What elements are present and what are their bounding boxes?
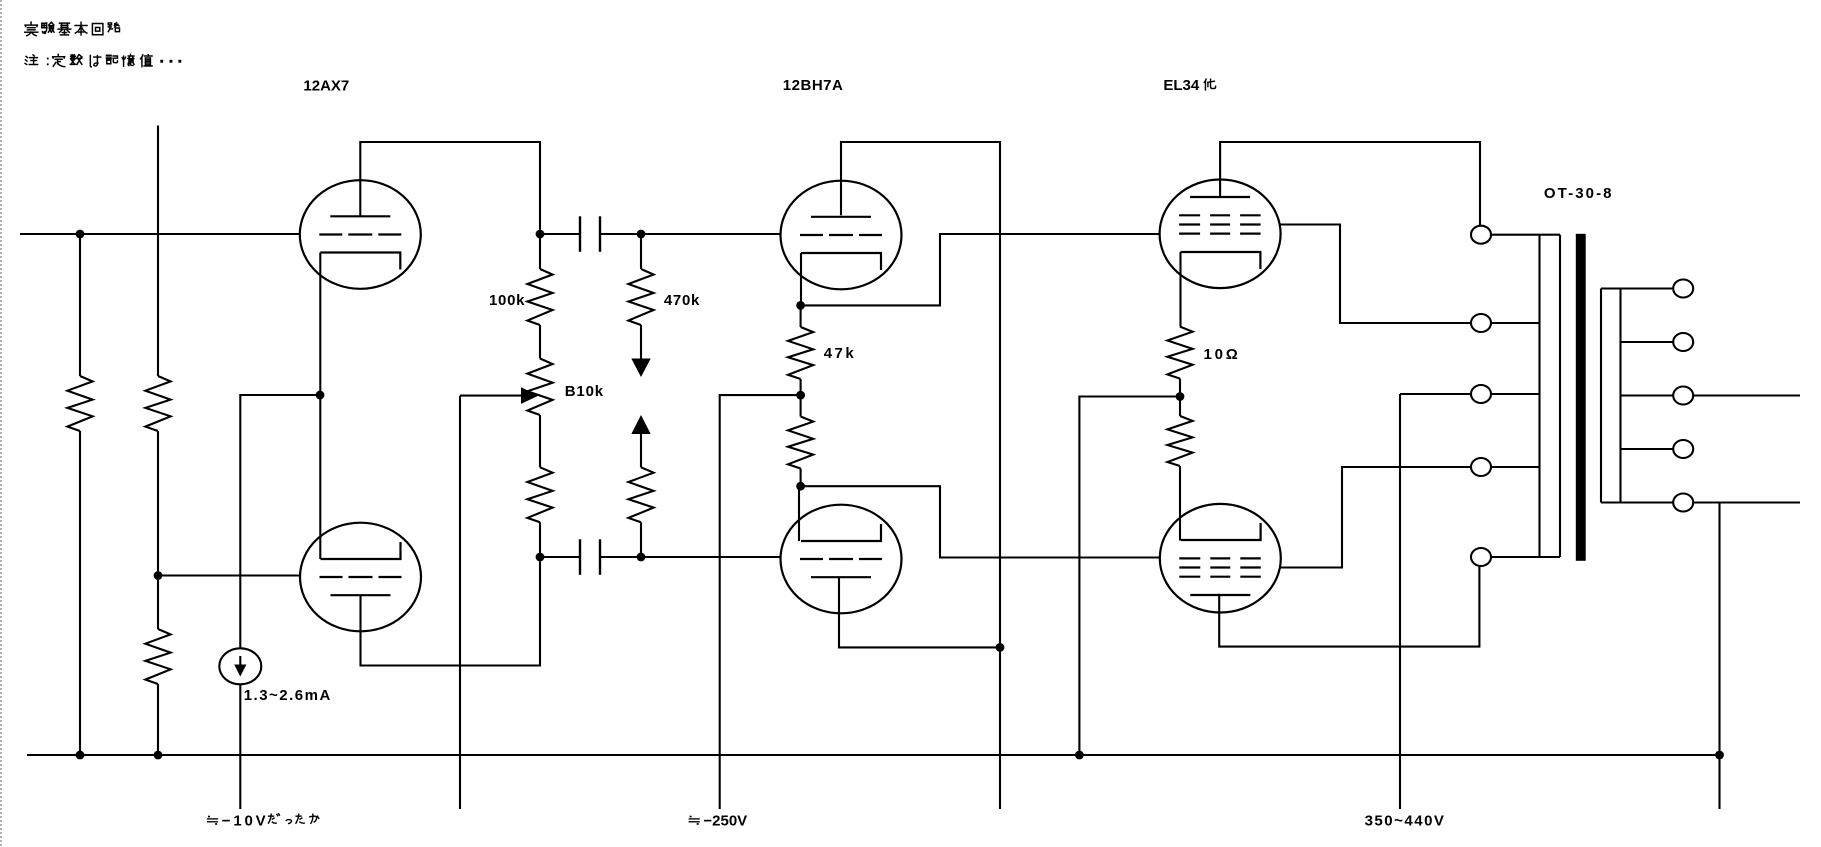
wire P1 to winding [1491, 234, 1561, 236]
wire R2 to node [157, 431, 159, 576]
node U2b plate junction [996, 643, 1005, 652]
wire cathode return to rail [1079, 397, 1180, 756]
svg-text:100k: 100k [489, 292, 525, 309]
wire S5 lead [1601, 501, 1674, 503]
wire R4 bottom lead [539, 522, 541, 557]
resistor R3 (divider lower) [145, 629, 170, 684]
wire S2 lead [1621, 341, 1674, 343]
wire R3 bottom lead [157, 684, 159, 755]
terminal OT P4 [1471, 458, 1491, 476]
wire S4 lead [1621, 448, 1674, 450]
node input junction [76, 230, 85, 239]
node U2b cathode [796, 482, 805, 491]
wire 47k lower lead [800, 469, 802, 487]
pentode U3a EL34 upper [1160, 180, 1281, 289]
resistor 470k grid leak [628, 269, 653, 325]
wire current source branch [240, 395, 320, 648]
label EL34 hoka (kanji) [1204, 79, 1215, 90]
terminal OT P1 [1471, 226, 1491, 244]
node rail secondary common [1715, 751, 1724, 760]
terminal OT P2 [1471, 314, 1491, 332]
svg-text:10Ω: 10Ω [1204, 346, 1241, 363]
triode U1b 12AX7 lower [300, 523, 421, 632]
wire speaker - output [1693, 501, 1800, 503]
node rail R1 [76, 751, 85, 760]
svg-text:12BH7A: 12BH7A [783, 77, 844, 94]
wire R5 bottom lead [640, 522, 642, 557]
arrow down (470k to wiper) [631, 325, 650, 377]
node lower coupling left [536, 553, 545, 562]
svg-text:12AX7: 12AX7 [303, 78, 349, 95]
node cathode / current source [316, 391, 325, 400]
wire U1a plate to coupling node [360, 142, 540, 230]
wire B+ 350-440V [1399, 394, 1401, 809]
wire C2 right lead [601, 556, 641, 558]
transformer primary winding [1540, 235, 1561, 557]
wire U3b plate to OT P5 [1219, 567, 1479, 647]
wire to U2a grid [641, 233, 781, 235]
wire current source lower probe [239, 684, 241, 809]
wire C2 left lead [540, 556, 579, 558]
potentiometer B10k wiper arrow [460, 387, 539, 404]
svg-text:−250V: −250V [703, 813, 747, 830]
resistor 47k lower [788, 417, 813, 469]
wire U2a cathode to U3a grid [801, 234, 1160, 305]
wire S5 to ground rail [1718, 503, 1720, 810]
triode U1a 12AX7 upper [300, 180, 421, 289]
wire 10ohm mid link [1179, 379, 1181, 416]
resistor 47k upper [788, 327, 813, 379]
wire P3 to winding [1491, 393, 1540, 395]
resistor R4 (lower of 100k chain) [527, 467, 552, 522]
wire C1 right lead [601, 233, 641, 235]
label datta-ka (kana) [268, 814, 279, 823]
wire U2b plate to bus [839, 577, 1000, 648]
title jikken kihon kairo [25, 22, 38, 36]
potentiometer B10k [527, 359, 552, 416]
wire 100k to B10k [539, 325, 541, 359]
svg-text:B10k: B10k [565, 383, 604, 400]
terminal OT S1 [1673, 280, 1693, 298]
current source I1 [219, 648, 261, 684]
resistor R2 (divider upper) [145, 376, 170, 431]
wire 47k top lead [800, 305, 802, 327]
resistor 100k plate load [527, 269, 552, 325]
wire U2a plate bus [841, 142, 1000, 809]
wire B10k to R4 [539, 415, 541, 467]
svg-text:470k: 470k [664, 292, 700, 309]
wire C1 left lead [540, 233, 579, 235]
wire P2 to winding [1491, 322, 1540, 324]
wire R1 top lead [79, 234, 81, 376]
wire 47k mid link [800, 379, 802, 417]
wire speaker + output [1693, 394, 1800, 396]
wire U1b plate to lower coupling node [361, 561, 541, 665]
terminal OT S5 [1673, 494, 1693, 512]
wire U3b screen to OT P4 [1280, 467, 1471, 568]
svg-text:350~440V: 350~440V [1365, 813, 1446, 830]
wire input line to U1a grid [20, 233, 300, 235]
terminal OT S2 [1673, 333, 1693, 351]
wire 470k top lead [640, 234, 642, 269]
pentode U3b EL34 lower [1160, 504, 1281, 613]
wire U1a-U1b cathode link [319, 253, 321, 560]
wire ground rail [27, 754, 1720, 756]
triode U2b 12BH7A lower [781, 505, 902, 614]
terminal OT S3 [1673, 387, 1693, 405]
node U1a plate / C1 [536, 230, 545, 239]
wire bias feed -250V [720, 395, 801, 809]
wire second input line vertical [157, 126, 159, 377]
node EL34 cathode mid [1176, 392, 1185, 401]
wire U2b cathode lead [798, 486, 800, 541]
label approx-equal 2 [689, 816, 699, 825]
svg-text:47k: 47k [824, 345, 857, 362]
svg-text:−10V: −10V [222, 813, 269, 830]
wire P3 feed [1400, 393, 1472, 395]
svg-text:1.3~2.6mA: 1.3~2.6mA [244, 687, 332, 704]
node lower grid divider [154, 571, 163, 580]
node 47k midpoint [796, 391, 805, 400]
wire 100k top lead [539, 234, 541, 269]
terminal OT S4 [1673, 440, 1693, 458]
triode U2a 12BH7A upper [781, 181, 902, 290]
terminal OT P5 [1471, 548, 1491, 566]
node rail R3 [154, 751, 163, 760]
page left edge marks [0, 0, 2, 847]
wire S1 lead [1601, 287, 1674, 289]
wire U2a cathode lead [800, 253, 802, 305]
wire P4 to winding [1491, 466, 1540, 468]
label approx-equal 1 [208, 816, 218, 825]
wire to U2b grid [641, 556, 781, 558]
node rail EL34 cathode return [1075, 751, 1084, 760]
note chu teisu wa kiokuchi [25, 55, 38, 65]
wire R3 top lead [157, 576, 159, 630]
wire U3a plate to OT primary P1 [1220, 142, 1480, 225]
wire B10k wiper down probe [459, 396, 461, 809]
node C2 / chain [637, 553, 646, 562]
wire P5 to winding [1491, 556, 1561, 558]
wire to U3b cathode [1179, 466, 1181, 541]
node U2a cathode [796, 301, 805, 310]
wire U2b cathode to U3b grid [801, 486, 1160, 557]
wire R1 bottom lead [79, 431, 81, 755]
wire divider to U1b grid [158, 574, 300, 576]
resistor 10ohm upper [1167, 327, 1192, 379]
node C1 / 470k [637, 230, 646, 239]
capacitor C1 coupling upper [580, 216, 600, 252]
resistor 10ohm lower [1167, 416, 1192, 466]
terminal OT P3 [1471, 385, 1491, 403]
wire U3a cathode lead [1179, 252, 1181, 327]
arrow up (from lower chain) [631, 415, 650, 467]
wire S3 lead [1621, 394, 1674, 396]
transformer core [1576, 234, 1586, 561]
resistor R1 (input load) [67, 376, 92, 431]
transformer secondary winding [1601, 289, 1621, 503]
svg-text:EL34: EL34 [1163, 77, 1200, 94]
resistor R5 (lower of 470k chain) [628, 467, 653, 522]
capacitor C2 coupling lower [580, 539, 600, 575]
wire U3a screen to OT P2 [1280, 225, 1472, 324]
svg-text:OT-30-8: OT-30-8 [1544, 185, 1614, 202]
